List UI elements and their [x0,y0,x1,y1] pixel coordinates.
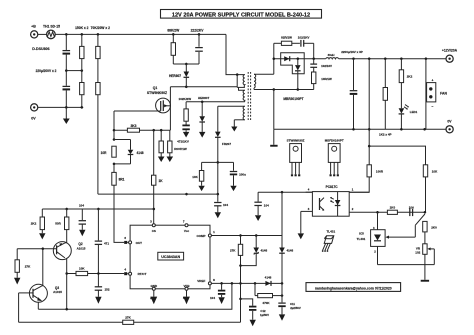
opto U2 PC817C [312,185,349,216]
wire 0V rail [274,128,446,130]
diode D1 schottky [284,56,290,61]
rectifier MBR30100PT outline [281,53,305,101]
resistor 1K0 [376,205,397,214]
resistor 102K/2W aux snubber [179,97,245,121]
pin 1 opto [349,188,369,193]
ground input [63,107,70,124]
resistor 150K b [80,71,84,108]
svg-text:Q2: Q2 [78,242,82,246]
svg-text:4148: 4148 [136,151,143,155]
svg-text:8R1: 8R1 [119,177,125,181]
transistor Q3 A1015 [19,284,63,309]
svg-text:MSFD6160PT: MSFD6160PT [325,138,344,142]
svg-text:4148: 4148 [286,249,293,253]
wire secondary top riser [273,43,275,74]
svg-text:Q1: Q1 [153,86,158,90]
resistor 1K to CS [152,130,164,225]
capacitor 104 fb [409,205,426,216]
svg-text:LED1: LED1 [410,110,418,114]
resistor 3K3 [127,124,139,132]
svg-text:MBR30100PT: MBR30100PT [283,97,303,101]
capacitor 104 opto [254,192,269,221]
svg-text:1K2 x 4P: 1K2 x 4P [379,132,392,136]
diode 4148 comp b [279,192,293,283]
svg-text:50R: 50R [55,222,61,226]
svg-text:150K x 2: 150K x 2 [75,26,89,30]
svg-text:102: 102 [415,251,420,255]
wire output line [274,58,326,60]
wire feedback column [368,58,370,165]
svg-text:CS: CS [152,229,156,233]
resistor 10R/1W [312,72,332,90]
resistor R007/1W sense a [158,130,165,162]
wire opto collector line [258,191,312,193]
title box [161,10,322,19]
diode D2 schottky freewheel [295,58,301,90]
wire collector rail [38,283,232,309]
svg-text:PC817C: PC817C [326,185,339,189]
resistor 150K a [80,34,84,70]
pin 2 GND [150,287,155,300]
inductor L1 [326,53,339,59]
diode FR207 [215,106,231,195]
ground pot bar [421,280,429,282]
diode 4148 vref [265,276,272,286]
IC5 TL431 [357,212,385,264]
wire Vcc line [98,193,218,195]
capacitor 152 timing [95,274,110,304]
wire aux dc branch [202,161,234,163]
diode 4148 comp a [241,236,268,266]
svg-text:27K: 27K [230,249,236,253]
resistor 10K rt [76,267,88,276]
transformer secondary winding [254,74,274,89]
wire top rail [55,33,226,35]
svg-text:10K: 10K [79,267,85,271]
terminal +12V/20A [442,49,458,63]
capacitor 471/1KV [177,121,190,143]
svg-text:R007/1W: R007/1W [174,147,187,151]
ground GND pin [150,290,157,304]
svg-text:A1015: A1015 [53,290,62,294]
transistor Q2 A1015 [17,242,86,310]
pin 3 CS [150,220,155,227]
capacitor C12 1u/50V [241,299,270,326]
svg-text:30uH: 30uH [328,53,335,57]
svg-text:STW9NK90Z: STW9NK90Z [147,91,167,95]
wire drain line [170,86,237,88]
wire secondary bottom line [254,89,314,91]
thermistor TH1 SD-15 [38,25,60,39]
pin 4 RT/CT [124,268,131,276]
wire rail corner to transformer [226,34,245,74]
svg-text:RT/CT: RT/CT [138,272,147,276]
wire VREF line [211,282,282,284]
svg-text:VREF: VREF [197,279,205,283]
svg-text:0V: 0V [31,117,36,121]
svg-text:4148: 4148 [265,276,272,280]
svg-text:10R/1W: 10R/1W [321,77,332,81]
resistor 10K divider [423,165,438,213]
resistor 27K comp [230,236,243,323]
wire 0V line [38,106,83,108]
wire COMP line [211,235,282,237]
capacitor C2 220u/200V [63,71,71,108]
svg-text:3K3: 3K3 [130,124,136,128]
svg-text:2K2: 2K2 [407,75,413,79]
svg-text:10R: 10R [101,151,108,155]
ground VFB pin [183,290,190,304]
pin 3 opto [301,207,313,211]
ground aux winding [231,120,237,132]
svg-text:104: 104 [409,205,414,209]
wire RT/CT line [67,273,125,275]
svg-text:1µ/50V: 1µ/50V [260,313,269,317]
potentiometer VR 102 [378,244,435,280]
pin 8 VREF [208,278,215,285]
capacitor 102/16V [310,59,332,72]
svg-text:470K: 470K [262,301,270,305]
svg-text:2K0: 2K0 [431,225,437,229]
resistor 2K2 bias [31,209,46,239]
svg-text:104: 104 [264,203,269,207]
transformer core [248,72,250,121]
wire secondary gnd drop [273,90,275,130]
capacitor 2200u/16V bank [350,58,358,130]
svg-text:471/1KV: 471/1KV [177,140,189,144]
svg-text:2µ2/50V: 2µ2/50V [290,306,301,310]
svg-text:IC5: IC5 [359,232,364,236]
capacitor 100u aux [230,162,246,191]
svg-text:TL431: TL431 [326,229,335,233]
svg-text:2K2: 2K2 [31,222,37,226]
resistor 50R [55,209,69,243]
resistor 70K/20W a [96,34,100,82]
svg-text:70K/20W x 2: 70K/20W x 2 [91,26,110,30]
terminal +B [31,25,38,39]
svg-text:1K0: 1K0 [390,205,396,209]
svg-text:100u: 100u [239,173,246,177]
svg-text:10K: 10K [192,175,198,179]
resistor 10R parallel diode 4148 [101,140,144,165]
node dots on top rail [65,33,67,35]
diode HER807 snubber [169,64,189,87]
capacitor 102/1KV out snubber [298,35,315,60]
svg-text:104: 104 [79,204,84,208]
resistor 27K q2 base [14,249,31,285]
wire bias line left [42,208,154,210]
svg-text:−: − [432,105,434,109]
resistor 2K0 [423,221,437,243]
wire mid junction [66,70,82,72]
pin 4 opto [306,188,313,193]
svg-text:Q3: Q3 [55,286,59,290]
svg-text:27K: 27K [25,265,31,269]
wire snubber bottom [173,63,199,65]
capacitor 222/2KV snubber [191,29,205,64]
svg-text:222/2KV: 222/2KV [191,29,205,33]
connector FAN [425,58,448,130]
capacitor C1 220u/200V [63,34,71,70]
resistor 88K/2W snubber [167,29,180,64]
resistor 1K2 x 4P bleeder [379,58,392,137]
svg-text:152: 152 [104,288,109,292]
svg-text:4148: 4148 [260,249,267,253]
transformer T1 aux winding 3 [218,106,245,120]
capacitor 471 timing [95,209,110,274]
wire divider branch [369,146,425,165]
wire q2 base to q3 [42,248,44,286]
wire startup feed down left [97,95,99,194]
wire TL431 ref route [385,214,425,239]
transformer T1 primary winding 1 [237,75,245,91]
pin 5 VFB [183,287,188,300]
resistor 470K [255,283,283,305]
svg-text:471: 471 [104,241,109,245]
capacitor 104 bias [79,204,86,237]
email box [306,283,401,292]
ground opto pin3 [298,211,304,239]
svg-text:UC3843AN: UC3843AN [161,255,180,259]
svg-text:82R/1W: 82R/1W [281,35,292,39]
capacitor 104 vref [210,283,225,304]
pin 6 OUT [124,236,131,244]
svg-text:TL431: TL431 [357,237,366,241]
svg-text:12V 20A POWER SUPPLY CIRCUIT: 12V 20A POWER SUPPLY CIRCUIT MODEL B-240… [172,12,310,18]
svg-text:nandasinghanasenkara@yahoo.com: nandasinghanasenkara@yahoo.com 07/11/202… [315,286,392,290]
svg-text:27K: 27K [125,315,131,319]
resistor 10K aux [192,162,205,191]
wire source line [114,129,170,131]
pin 7 Vcc [183,220,188,227]
svg-text:102K/2W: 102K/2W [179,97,192,101]
pin 1 COMP [208,230,215,237]
wire gate [114,110,161,112]
svg-text:STW9NK90Z: STW9NK90Z [287,138,305,142]
svg-text:HER807: HER807 [169,74,181,78]
ground secondary bar [270,129,277,146]
terminal 0V output [446,120,453,133]
svg-text:104: 104 [223,203,228,207]
svg-text:88K/2W: 88K/2W [167,29,180,33]
resistor R007/1W sense b [167,130,187,162]
transformer T1 primary winding 2 [243,90,245,102]
svg-text:1K: 1K [158,179,163,183]
transistor package STW9NK90Z [287,138,305,176]
svg-text:+: + [432,78,434,82]
wire primary top to drain bypass [236,75,238,88]
svg-text:A1015: A1015 [77,247,86,251]
terminal 0V input [31,104,38,121]
LED1 [399,83,418,130]
svg-text:102/16V: 102/16V [321,64,332,68]
svg-text:2200µ/16V x 3P: 2200µ/16V x 3P [341,50,363,54]
svg-text:OUT: OUT [136,241,143,245]
capacitor 104 vcc [214,194,228,218]
svg-text:+12V/20A: +12V/20A [442,49,458,53]
svg-text:D-DSU806: D-DSU806 [32,47,49,51]
resistor 27K bottom [19,315,241,324]
svg-text:10K: 10K [432,169,438,173]
pin 2 opto [349,207,425,212]
capacitor C11 2u2/50V [278,283,301,320]
wire q3 base loop [18,293,20,322]
svg-text:100R: 100R [376,169,384,173]
svg-text:HER807: HER807 [198,96,210,100]
resistor 8R1 [112,164,125,243]
svg-text:102/1KV: 102/1KV [298,35,310,39]
transistor package MSFD6160PT [325,138,344,176]
svg-text:TH1 SD-15: TH1 SD-15 [43,25,60,29]
op-amp U1 UC3843AN PWM controller [130,225,210,289]
svg-text:104: 104 [210,296,215,300]
transistor Q1 STW9NK90Z MOSFET [147,86,170,130]
wire gate drop [113,111,115,140]
svg-text:+B: +B [31,25,36,29]
svg-text:220µ/200V x 2: 220µ/200V x 2 [36,69,57,73]
svg-text:Vcc: Vcc [184,229,190,233]
transistor package TL431 TO-92 [322,229,336,251]
resistor 82R/1W out snubber [274,35,300,45]
svg-text:0V: 0V [447,120,452,124]
svg-text:COMP: COMP [197,234,206,238]
resistor 100R opto [349,165,384,192]
resistor 2K2 led [399,58,412,83]
svg-text:FR207: FR207 [222,142,231,146]
svg-text:FAN: FAN [440,92,447,96]
resistor 70K/20W b [96,83,100,95]
diode HER807 aux [198,96,210,138]
